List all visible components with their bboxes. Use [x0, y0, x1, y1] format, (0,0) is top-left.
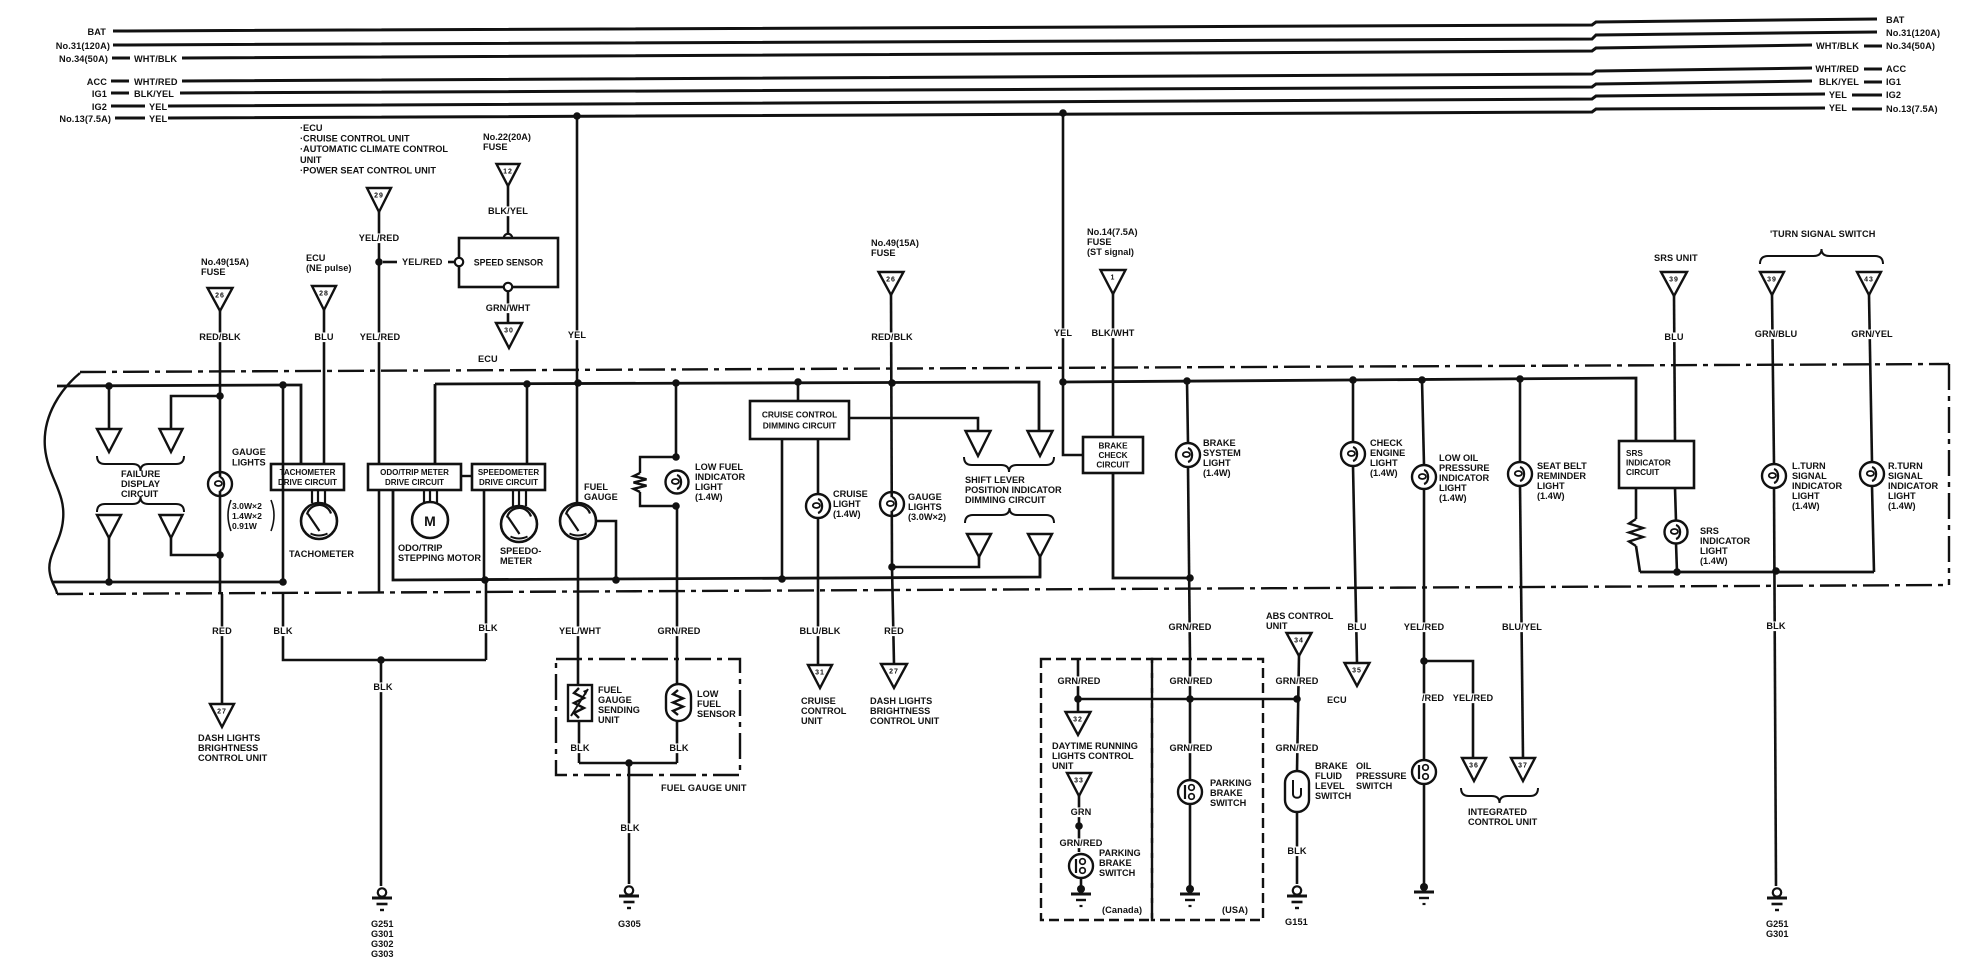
- wire cruise dim to lamp: [817, 439, 820, 494]
- svg-text:WHT/BLK: WHT/BLK: [1816, 41, 1859, 51]
- svg-text:·ECU: ·ECU: [300, 123, 323, 133]
- svg-text:31: 31: [815, 670, 825, 677]
- svg-text:27: 27: [217, 709, 227, 716]
- svg-text:SPEEDO-: SPEEDO-: [500, 546, 541, 556]
- box tachometer drive circuit: [271, 464, 344, 490]
- lamp R turn signal: [1860, 462, 1884, 486]
- pin circle speed sensor top: [504, 234, 512, 242]
- svg-text:LIGHT: LIGHT: [1700, 546, 1728, 556]
- wire BLK speedo ground drop: [485, 580, 488, 660]
- connector 26 left: [208, 288, 233, 311]
- wire shift branch: [892, 557, 979, 567]
- svg-text:BRAKE: BRAKE: [1099, 858, 1132, 868]
- wire cruise dim left leg: [781, 439, 784, 579]
- svg-text:RED/BLK: RED/BLK: [199, 332, 241, 342]
- node BLU label srs: [1664, 332, 1683, 342]
- wire tacho pins: [311, 490, 313, 503]
- svg-text:INTEGRATED: INTEGRATED: [1468, 807, 1527, 817]
- node junction yel bus1: [573, 112, 581, 120]
- node GRN label: [1071, 807, 1090, 817]
- svg-text:(1.4W): (1.4W): [833, 509, 861, 519]
- svg-text:YEL: YEL: [568, 330, 586, 340]
- node RED/BLK label mid: [871, 332, 914, 342]
- svg-text:CONTROL UNIT: CONTROL UNIT: [198, 753, 268, 763]
- wire No.13 left dash: [115, 117, 145, 120]
- svg-text:CRUISE: CRUISE: [833, 489, 868, 499]
- svg-text:CIRCUIT: CIRCUIT: [1096, 461, 1129, 470]
- box usa dashed: [1152, 659, 1263, 920]
- node GRN/BLU label: [1755, 329, 1798, 339]
- svg-text:BLU/BLK: BLU/BLK: [799, 626, 840, 636]
- svg-text:LIGHT: LIGHT: [1888, 491, 1916, 501]
- svg-text:RED: RED: [884, 626, 904, 636]
- svg-text:GRN/RED: GRN/RED: [657, 626, 700, 636]
- svg-text:GAUGE: GAUGE: [232, 447, 266, 457]
- svg-text:34: 34: [1294, 638, 1304, 645]
- box fuel gauge unit dash-dot: [556, 659, 740, 775]
- wire YEL to brake check: [1063, 382, 1083, 455]
- svg-text:IG1: IG1: [92, 89, 107, 99]
- svg-text:SRS UNIT: SRS UNIT: [1654, 253, 1698, 263]
- connector 36: [1462, 758, 1486, 781]
- svg-text:FUEL GAUGE UNIT: FUEL GAUGE UNIT: [661, 783, 747, 793]
- node junction rail-seatbelt: [1516, 375, 1524, 383]
- svg-text:26: 26: [886, 277, 896, 284]
- svg-text:SRS: SRS: [1626, 449, 1643, 458]
- brace shift upper: [964, 457, 1054, 472]
- svg-text:29: 29: [374, 193, 384, 200]
- svg-text:No.49(15A): No.49(15A): [201, 257, 249, 267]
- svg-text:GRN: GRN: [1071, 807, 1092, 817]
- node junction rail-gaugelights: [888, 379, 896, 387]
- svg-text:BLK/WHT: BLK/WHT: [1091, 328, 1134, 338]
- connector 12 fuse No.22: [497, 164, 520, 186]
- svg-text:LIGHT: LIGHT: [1792, 491, 1820, 501]
- connector 27 left dash lights: [210, 704, 234, 727]
- node junction lowfuel top: [672, 453, 680, 461]
- node junction rail-brakelight: [1183, 377, 1191, 385]
- svg-text:No.14(7.5A): No.14(7.5A): [1087, 227, 1138, 237]
- box canada dashed: [1041, 659, 1152, 920]
- node junction rail-lowoil: [1418, 376, 1426, 384]
- svg-text:36: 36: [1469, 763, 1479, 770]
- svg-text:GAUGE: GAUGE: [598, 695, 632, 705]
- node BLK label left: [273, 626, 292, 636]
- brace turn signal switch: [1760, 249, 1883, 264]
- node BLK label turn: [1766, 621, 1785, 631]
- meter tachometer: [301, 503, 337, 539]
- connector 30 ECU: [496, 323, 522, 348]
- svg-text:SPEEDOMETER: SPEEDOMETER: [478, 468, 540, 477]
- svg-text:SIGNAL: SIGNAL: [1888, 471, 1923, 481]
- svg-text:G301: G301: [371, 929, 393, 939]
- svg-text:STEPPING MOTOR: STEPPING MOTOR: [398, 553, 481, 563]
- connector 26 mid: [879, 272, 904, 295]
- svg-text:CONTROL UNIT: CONTROL UNIT: [870, 716, 940, 726]
- svg-text:INDICATOR: INDICATOR: [1792, 481, 1843, 491]
- svg-text:BLU: BLU: [314, 332, 333, 342]
- node BLU label: [314, 332, 333, 342]
- svg-text:GRN/RED: GRN/RED: [1275, 676, 1318, 686]
- svg-text:UNIT: UNIT: [1052, 761, 1074, 771]
- node BLU/BLK label: [799, 626, 842, 636]
- wire speedo ground pin: [483, 490, 486, 580]
- node YEL label drop1: [567, 330, 586, 340]
- wire bottom rail brake: [1113, 473, 1190, 578]
- wire fuse12 to speed sensor: [507, 186, 510, 234]
- wire Rturn to rail: [1872, 486, 1874, 572]
- node /RED label: [1420, 693, 1445, 703]
- svg-text:YEL/RED: YEL/RED: [402, 257, 443, 267]
- svg-text:G251: G251: [1766, 919, 1788, 929]
- svg-text:REMINDER: REMINDER: [1537, 471, 1586, 481]
- switch parking brake canada: [1069, 854, 1093, 878]
- wire low fuel feed: [675, 383, 678, 457]
- node junction bottomrail-fuelgauge: [612, 576, 620, 584]
- svg-text:CONTROL UNIT: CONTROL UNIT: [1468, 817, 1538, 827]
- svg-text:G251: G251: [371, 919, 393, 929]
- node RED/BLK label left: [199, 332, 242, 342]
- svg-text:BLK: BLK: [570, 743, 589, 753]
- wire IG2 right dash: [1852, 94, 1882, 97]
- svg-text:LOW OIL: LOW OIL: [1439, 453, 1479, 463]
- wire check engine feed: [1352, 380, 1355, 442]
- node YEL/RED label upper: [358, 233, 401, 243]
- connector failure T3: [97, 515, 121, 538]
- svg-text:·CRUISE CONTROL UNIT: ·CRUISE CONTROL UNIT: [300, 134, 410, 144]
- svg-text:BLK: BLK: [669, 743, 688, 753]
- wire No.13 bus YEL: [168, 108, 1825, 118]
- wire No.34 bus WHT/BLK: [182, 45, 1812, 58]
- node YEL/RED label branch: [1452, 693, 1495, 703]
- svg-text:(USA): (USA): [1222, 905, 1248, 915]
- motor odo/trip stepping: [412, 502, 448, 538]
- lamp cruise light: [806, 494, 830, 518]
- node GRN/WHT label: [487, 303, 530, 313]
- wire Rturn down: [1869, 295, 1872, 462]
- svg-text:BRAKE: BRAKE: [1098, 441, 1128, 450]
- svg-text:30: 30: [504, 328, 514, 335]
- node GRN/RED label canada2: [1060, 838, 1103, 848]
- svg-text:G302: G302: [371, 939, 393, 949]
- wire box link: [461, 475, 472, 477]
- svg-text:(1.4W): (1.4W): [1203, 468, 1231, 478]
- node junction yelred branch: [1420, 657, 1428, 665]
- svg-text:No.49(15A): No.49(15A): [871, 238, 919, 248]
- pin circle speed sensor left: [455, 258, 463, 266]
- svg-text:SYSTEM: SYSTEM: [1203, 448, 1241, 458]
- svg-text:SHIFT LEVER: SHIFT LEVER: [965, 475, 1025, 485]
- node RED label left: [212, 626, 231, 636]
- svg-text:·AUTOMATIC CLIMATE CONTROL: ·AUTOMATIC CLIMATE CONTROL: [300, 144, 448, 154]
- wire gauge lights mid below: [892, 567, 894, 664]
- node BLK/WHT label: [1092, 328, 1135, 338]
- connector 39 turn L: [1760, 272, 1784, 295]
- svg-text:(ST signal): (ST signal): [1087, 247, 1134, 257]
- svg-text:M: M: [424, 513, 436, 529]
- svg-text:BLK/YEL: BLK/YEL: [488, 206, 528, 216]
- svg-text:GRN/WHT: GRN/WHT: [486, 303, 531, 313]
- svg-text:R.TURN: R.TURN: [1888, 461, 1923, 471]
- svg-text:YEL: YEL: [1054, 328, 1072, 338]
- wire top rail C: [1063, 378, 1636, 441]
- node junction brake-ground: [1186, 574, 1194, 582]
- node GRN/RED label abs1: [1276, 676, 1319, 686]
- node junction bottomrail-BLK: [279, 578, 287, 586]
- svg-text:RED/BLK: RED/BLK: [871, 332, 913, 342]
- wire srs lamp to rail: [1676, 543, 1677, 572]
- svg-text:SPEED SENSOR: SPEED SENSOR: [474, 258, 544, 268]
- svg-text:YEL: YEL: [1829, 90, 1847, 100]
- wire No.13 right dash: [1852, 108, 1882, 111]
- wire oil switch to ground: [1423, 784, 1426, 884]
- brace failure upper: [97, 456, 184, 471]
- svg-text:GRN/RED: GRN/RED: [1168, 622, 1211, 632]
- box speedometer drive circuit: [472, 464, 545, 490]
- ground G151: [1293, 886, 1301, 894]
- connector 31 cruise: [808, 665, 832, 688]
- wire ACC right dash: [1864, 68, 1882, 71]
- connector 29: [367, 188, 391, 212]
- svg-text:DRIVE CIRCUIT: DRIVE CIRCUIT: [479, 478, 538, 487]
- node junction usa: [1186, 695, 1194, 703]
- wire low fuel resistor branch: [640, 457, 676, 473]
- svg-text:DIMMING CIRCUIT: DIMMING CIRCUIT: [763, 421, 837, 431]
- svg-text:WHT/BLK: WHT/BLK: [134, 54, 177, 64]
- brace integrated control: [1461, 788, 1538, 803]
- node junction failure T2: [216, 392, 224, 400]
- svg-text:YEL/WHT: YEL/WHT: [559, 626, 601, 636]
- svg-text:BRIGHTNESS: BRIGHTNESS: [870, 706, 930, 716]
- svg-text:DRIVE CIRCUIT: DRIVE CIRCUIT: [385, 478, 444, 487]
- brace failure lower: [97, 497, 184, 512]
- wire BLK/WHT down: [1112, 294, 1115, 437]
- svg-text:YEL: YEL: [149, 114, 167, 124]
- lamp gauge lights 3.0W: [880, 492, 904, 516]
- wire shift lower R lead: [1039, 557, 1042, 577]
- svg-text:OIL: OIL: [1356, 761, 1372, 771]
- lamp brake system light: [1176, 443, 1200, 467]
- node BLK label g151: [1287, 846, 1306, 856]
- svg-text:DASH LIGHTS: DASH LIGHTS: [870, 696, 932, 706]
- node junction bottomrail-T3: [105, 578, 113, 586]
- lamp check engine light: [1341, 442, 1365, 466]
- svg-text:CRUISE CONTROL: CRUISE CONTROL: [762, 410, 837, 420]
- node junction bottomrail-blk486: [481, 576, 489, 584]
- ground canada: [1077, 885, 1085, 893]
- svg-text:LIGHT: LIGHT: [695, 482, 723, 492]
- svg-text:UNIT: UNIT: [598, 715, 620, 725]
- wire top rail B: [434, 384, 437, 464]
- node YEL label drop2: [1053, 328, 1072, 338]
- svg-text:GRN/RED: GRN/RED: [1059, 838, 1102, 848]
- svg-text:ACC: ACC: [87, 77, 107, 87]
- svg-text:G301: G301: [1766, 929, 1788, 939]
- panel torn left edge: [45, 373, 80, 594]
- svg-text:CHECK: CHECK: [1370, 438, 1403, 448]
- wire RED below panel: [221, 594, 224, 704]
- node junction canada: [1074, 695, 1082, 703]
- svg-text:SRS: SRS: [1700, 526, 1719, 536]
- svg-text:FUSE: FUSE: [201, 267, 226, 277]
- svg-text:BLK: BLK: [1766, 621, 1785, 631]
- wire yel/red dash: [383, 261, 397, 264]
- svg-text:BRAKE: BRAKE: [1203, 438, 1236, 448]
- wire Lturn to rail and below: [1774, 488, 1776, 886]
- wire brake fluid down: [1296, 812, 1299, 884]
- wire Lturn down: [1772, 295, 1774, 464]
- svg-text:FUSE: FUSE: [1087, 237, 1112, 247]
- svg-text:UNIT: UNIT: [300, 155, 322, 165]
- wire canada grnred: [1077, 659, 1080, 712]
- box cruise control dimming circuit: [750, 401, 849, 439]
- svg-text:BRAKE: BRAKE: [1315, 761, 1348, 771]
- node junction bottomrail-cruisedim: [778, 575, 786, 583]
- brace shift lower: [965, 508, 1054, 523]
- node GRN/RED label usa1: [1170, 676, 1213, 686]
- switch parking brake usa: [1178, 780, 1202, 804]
- connector 27 mid: [881, 664, 907, 688]
- svg-text:No.31(120A): No.31(120A): [1886, 28, 1940, 38]
- svg-text:DRIVE CIRCUIT: DRIVE CIRCUIT: [278, 478, 337, 487]
- lamp low oil pressure light: [1412, 465, 1436, 489]
- wire yelred branch to 36: [1424, 661, 1473, 758]
- wire brake light feed: [1187, 381, 1188, 443]
- svg-text:No.13(7.5A): No.13(7.5A): [1886, 104, 1938, 114]
- connector 33 daytime: [1067, 773, 1091, 796]
- svg-text:INDICATOR: INDICATOR: [1700, 536, 1751, 546]
- svg-text:LIGHT: LIGHT: [1537, 481, 1565, 491]
- svg-text:SWITCH: SWITCH: [1315, 791, 1352, 801]
- node BLK label g305: [620, 823, 639, 833]
- svg-text:0.91W: 0.91W: [232, 521, 258, 531]
- wire ACC left dash: [111, 80, 129, 83]
- resistor fuel gauge sending unit: [568, 685, 592, 721]
- connector shift lower R: [1028, 534, 1052, 557]
- svg-text:TACHOMETER: TACHOMETER: [289, 549, 354, 559]
- svg-text:FUEL: FUEL: [598, 685, 622, 695]
- lamp seat belt reminder: [1508, 462, 1532, 486]
- svg-text:LIGHT: LIGHT: [1370, 458, 1398, 468]
- node junction yelred-speedsensor: [375, 258, 383, 266]
- svg-text:BLK: BLK: [478, 623, 497, 633]
- svg-text:YEL/RED: YEL/RED: [360, 332, 401, 342]
- svg-text:INDICATOR: INDICATOR: [1626, 459, 1671, 468]
- svg-text:LOW: LOW: [697, 689, 719, 699]
- svg-text:LIGHT: LIGHT: [1203, 458, 1231, 468]
- svg-text:ABS CONTROL: ABS CONTROL: [1266, 611, 1334, 621]
- svg-text:CIRCUIT: CIRCUIT: [1626, 468, 1659, 477]
- svg-text:INDICATOR: INDICATOR: [695, 472, 746, 482]
- lamp L turn signal: [1762, 464, 1786, 488]
- node junction rail-checkengine: [1349, 376, 1357, 384]
- svg-text:(1.4W): (1.4W): [1700, 556, 1728, 566]
- svg-text:INDICATOR: INDICATOR: [1888, 481, 1939, 491]
- wire srs res to rail: [1636, 546, 1640, 572]
- svg-text:(1.4W): (1.4W): [1888, 501, 1916, 511]
- wire srs lamp leg: [1675, 488, 1676, 521]
- svg-text:G303: G303: [371, 949, 393, 959]
- node BLK label sending: [570, 743, 589, 753]
- svg-text:/RED: /RED: [1422, 693, 1445, 703]
- svg-text:(NE pulse): (NE pulse): [306, 263, 351, 273]
- svg-text:BLK: BLK: [273, 626, 292, 636]
- svg-text:LIGHT: LIGHT: [833, 499, 861, 509]
- connector 37: [1511, 758, 1535, 781]
- lamp srs indicator: [1665, 521, 1688, 544]
- lamp low fuel indicator: [666, 471, 689, 494]
- svg-text:LOW FUEL: LOW FUEL: [695, 462, 743, 472]
- connector 39 srs: [1661, 272, 1687, 296]
- wire shift lower L lead: [978, 557, 980, 560]
- node RED label mid: [884, 626, 903, 636]
- wire odo pins: [423, 490, 425, 503]
- node GRN/RED label abs2: [1276, 743, 1319, 753]
- node junction shift-gaugelights: [888, 563, 896, 571]
- wire low oil feed: [1422, 380, 1424, 465]
- svg-text:SENDING: SENDING: [598, 705, 640, 715]
- svg-text:BRAKE: BRAKE: [1210, 788, 1243, 798]
- svg-text:TACHOMETER: TACHOMETER: [280, 468, 336, 477]
- node junction yel bus2: [1059, 109, 1067, 117]
- svg-text:·POWER SEAT CONTROL UNIT: ·POWER SEAT CONTROL UNIT: [300, 165, 436, 175]
- ground G305: [625, 886, 633, 894]
- switch brake fluid level: [1285, 771, 1309, 812]
- wire IG1 left dash: [111, 92, 129, 95]
- wire IG2 left dash: [111, 105, 145, 108]
- svg-text:YEL: YEL: [1829, 103, 1847, 113]
- note wattage paren left: [228, 500, 231, 531]
- svg-text:CONTROL: CONTROL: [801, 706, 847, 716]
- note wattage paren right: [271, 500, 274, 531]
- wire BLU ecu to tacho: [323, 310, 326, 464]
- svg-text:BLK/YEL: BLK/YEL: [1819, 77, 1859, 87]
- svg-text:ENGINE: ENGINE: [1370, 448, 1405, 458]
- node GRN/RED label canada: [1058, 676, 1101, 686]
- node BLK/YEL label: [487, 206, 530, 216]
- connector 35 ecu: [1345, 663, 1370, 686]
- box srs indicator circuit: [1619, 441, 1694, 488]
- wire seat belt down BLU/YEL: [1520, 486, 1523, 758]
- svg-text:No.34(50A): No.34(50A): [59, 54, 108, 64]
- wire failure T1 feed: [108, 386, 111, 429]
- svg-text:BRIGHTNESS: BRIGHTNESS: [198, 743, 258, 753]
- svg-text:ACC: ACC: [1886, 64, 1906, 74]
- svg-text:FUEL: FUEL: [584, 482, 608, 492]
- node junction rail-speedo: [523, 380, 531, 388]
- wire failure T3 to rail: [108, 538, 111, 582]
- svg-text:G305: G305: [618, 919, 641, 929]
- svg-text:'TURN SIGNAL SWITCH: 'TURN SIGNAL SWITCH: [1770, 229, 1876, 239]
- svg-text:1.4W×2: 1.4W×2: [232, 511, 262, 521]
- node junction blk join: [377, 656, 385, 664]
- wire fuse26b down: [891, 295, 892, 567]
- svg-text:PARKING: PARKING: [1099, 848, 1141, 858]
- wire BLK to G251: [380, 660, 383, 886]
- svg-text:YEL/RED: YEL/RED: [1404, 622, 1445, 632]
- node BLK label speedo: [478, 623, 497, 633]
- svg-text:SIGNAL: SIGNAL: [1792, 471, 1827, 481]
- wire YEL drop2: [1062, 113, 1065, 382]
- svg-text:39: 39: [1669, 277, 1679, 284]
- connector 28 ECU: [312, 286, 336, 310]
- wire speedo feed: [526, 384, 529, 464]
- svg-text:12: 12: [503, 169, 513, 176]
- wire low oil down YEL/RED: [1423, 489, 1426, 760]
- wire No.31 bus: [113, 32, 1877, 45]
- svg-text:LEVEL: LEVEL: [1315, 781, 1345, 791]
- wire No.34 left dash: [112, 57, 130, 60]
